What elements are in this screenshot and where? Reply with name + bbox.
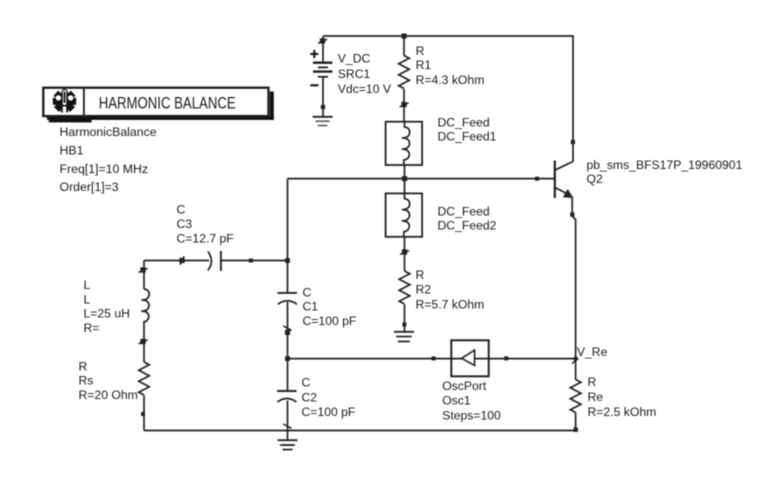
svg-text:pb_sms_BFS17P_19960901: pb_sms_BFS17P_19960901 <box>587 158 743 172</box>
svg-text:R=: R= <box>84 321 100 335</box>
svg-text:L=25 uH: L=25 uH <box>84 307 130 321</box>
svg-text:L: L <box>84 292 91 306</box>
svg-text:R: R <box>79 359 88 373</box>
svg-text:R: R <box>588 375 597 389</box>
svg-text:V_Re: V_Re <box>577 345 608 359</box>
svg-text:R=5.7 kOhm: R=5.7 kOhm <box>416 298 485 312</box>
svg-text:C=12.7 pF: C=12.7 pF <box>177 231 234 245</box>
svg-text:Re: Re <box>588 390 604 404</box>
svg-text:C=100 pF: C=100 pF <box>303 314 357 328</box>
svg-text:DC_Feed: DC_Feed <box>438 115 490 129</box>
svg-text:R: R <box>416 44 425 58</box>
svg-text:C3: C3 <box>177 217 193 231</box>
svg-text:HB1: HB1 <box>60 144 84 158</box>
svg-text:DC_Feed1: DC_Feed1 <box>438 130 497 144</box>
svg-text:R: R <box>416 268 425 282</box>
svg-text:Rs: Rs <box>79 374 94 388</box>
svg-text:L: L <box>84 278 91 292</box>
svg-text:R2: R2 <box>416 283 432 297</box>
svg-text:HarmonicBalance: HarmonicBalance <box>60 125 157 139</box>
svg-text:C2: C2 <box>302 390 318 404</box>
svg-text:R1: R1 <box>416 58 432 72</box>
svg-text:Steps=100: Steps=100 <box>442 408 501 422</box>
svg-text:Q2: Q2 <box>587 172 603 186</box>
svg-text:R=20 Ohm: R=20 Ohm <box>79 388 138 402</box>
svg-text:C=100 pF: C=100 pF <box>302 405 356 419</box>
svg-text:DC_Feed2: DC_Feed2 <box>438 219 497 233</box>
svg-text:Freq[1]=10 MHz: Freq[1]=10 MHz <box>60 162 149 176</box>
svg-text:Osc1: Osc1 <box>442 394 471 408</box>
svg-text:V_DC: V_DC <box>338 52 371 66</box>
svg-text:C: C <box>303 285 312 299</box>
svg-text:C1: C1 <box>303 300 319 314</box>
svg-text:C: C <box>302 375 311 389</box>
svg-text:SRC1: SRC1 <box>338 67 371 81</box>
svg-text:C: C <box>177 203 186 217</box>
svg-text:R=4.3 kOhm: R=4.3 kOhm <box>416 73 485 87</box>
svg-text:Order[1]=3: Order[1]=3 <box>60 180 119 194</box>
svg-text:R=2.5 kOhm: R=2.5 kOhm <box>588 405 657 419</box>
svg-text:OscPort: OscPort <box>442 379 487 393</box>
svg-text:Vdc=10 V: Vdc=10 V <box>338 82 392 96</box>
svg-text:HARMONIC BALANCE: HARMONIC BALANCE <box>99 94 236 113</box>
svg-text:DC_Feed: DC_Feed <box>438 204 490 218</box>
